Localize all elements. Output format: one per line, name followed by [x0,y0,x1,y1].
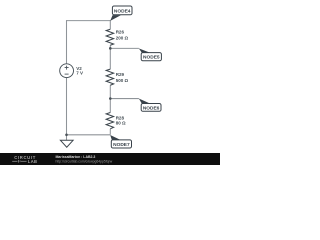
svg-text:R26: R26 [116,29,125,34]
svg-text:200 Ω: 200 Ω [116,36,129,41]
node NODE5 [139,48,162,60]
wire right rail segment 4 [109,129,111,135]
wire bottom horizontal [67,134,111,136]
svg-text:MarissaMarton : LAB2.3: MarissaMarton : LAB2.3 [56,155,96,159]
svg-text:7 V: 7 V [76,71,83,76]
svg-text:http://circuitlab.com/c/ewpg64: http://circuitlab.com/c/ewpg64pp5fqrw [56,160,113,164]
svg-text:500 Ω: 500 Ω [116,78,129,83]
resistor R26 [106,29,128,45]
junction node5 [109,47,112,50]
resistor R28 [106,113,126,129]
resistor R29 [106,69,128,85]
svg-text:80 Ω: 80 Ω [116,121,126,126]
wire NODE5 branch [110,47,139,49]
wire right rail segment 1 [109,20,111,29]
voltage source V2 [60,64,83,78]
junction ground [65,134,68,137]
wire right rail segment 3 [109,85,111,112]
wire top horizontal [67,20,111,22]
svg-text:NODE5: NODE5 [143,55,160,61]
svg-text:NODE6: NODE6 [143,105,160,111]
wire left vertical upper [66,20,68,64]
svg-text:LAB: LAB [28,159,37,164]
node NODE6 [139,99,161,112]
ground [60,140,73,147]
svg-text:R29: R29 [116,72,125,77]
svg-text:NODE4: NODE4 [114,8,131,14]
wire NODE6 branch [110,98,139,100]
node NODE7 [110,135,131,148]
wire right rail segment 2 [109,45,111,69]
svg-text:NODE7: NODE7 [113,142,130,148]
node NODE4 [110,6,132,21]
footer CircuitLab logo [12,155,37,164]
wire left vertical lower [66,78,68,135]
junction node6 [109,97,112,100]
wire ground stub [66,135,68,140]
footer bar [0,153,220,165]
